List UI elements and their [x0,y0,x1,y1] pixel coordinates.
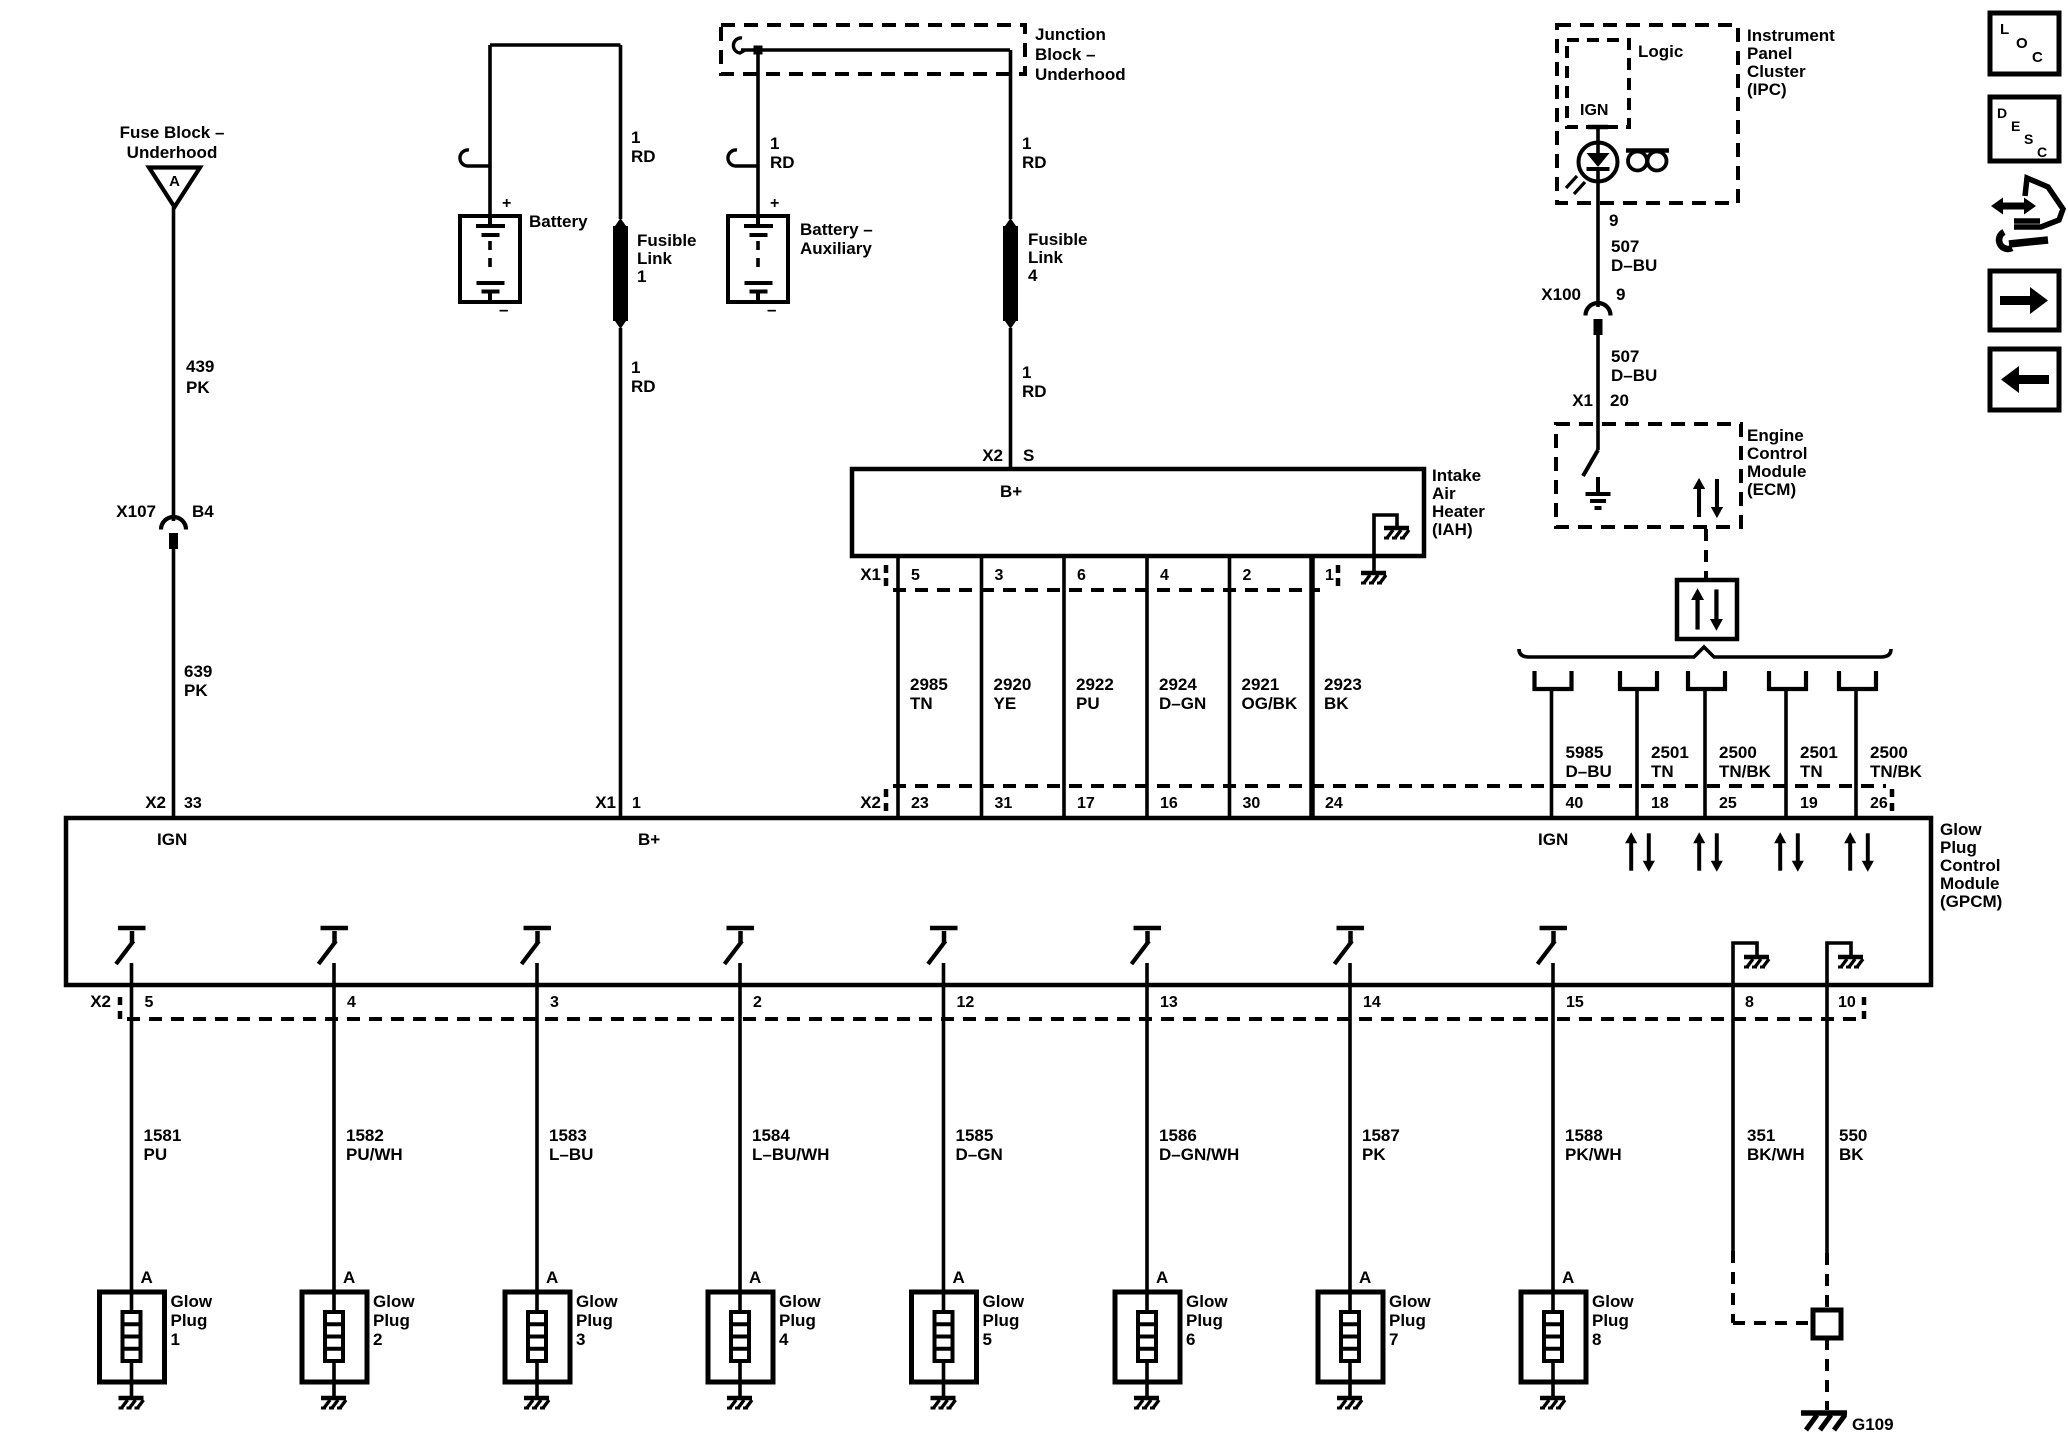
svg-text:7: 7 [1389,1330,1398,1349]
svg-text:(IAH): (IAH) [1432,520,1473,539]
svg-text:S: S [2024,131,2033,147]
svg-text:YE: YE [994,694,1017,713]
svg-text:5: 5 [983,1330,992,1349]
svg-text:Plug: Plug [1186,1311,1223,1330]
svg-text:D–GN/WH: D–GN/WH [1159,1145,1239,1164]
svg-text:20: 20 [1610,391,1629,410]
svg-text:L: L [2000,21,2009,38]
svg-text:12: 12 [957,994,975,1011]
svg-text:Glow: Glow [1389,1292,1431,1311]
svg-text:Underhood: Underhood [127,143,218,162]
svg-text:+: + [502,195,511,212]
svg-text:351: 351 [1747,1126,1775,1145]
svg-text:2500: 2500 [1870,743,1908,762]
svg-text:2920: 2920 [994,675,1032,694]
svg-text:X100: X100 [1541,285,1581,304]
svg-text:10: 10 [1838,994,1856,1011]
svg-text:3: 3 [550,994,559,1011]
svg-text:Plug: Plug [983,1311,1020,1330]
svg-text:PU/WH: PU/WH [346,1145,403,1164]
svg-text:1: 1 [171,1330,180,1349]
svg-text:1: 1 [1022,134,1031,153]
svg-text:14: 14 [1363,994,1381,1011]
svg-text:PK: PK [186,378,210,397]
svg-text:X1: X1 [860,565,881,584]
svg-text:D: D [1997,105,2007,121]
svg-text:(GPCM): (GPCM) [1940,892,2002,911]
svg-text:4: 4 [347,994,356,1011]
svg-text:1: 1 [631,128,640,147]
svg-text:TN: TN [1651,762,1674,781]
svg-text:15: 15 [1566,994,1584,1011]
svg-text:L–BU: L–BU [549,1145,593,1164]
svg-text:507: 507 [1611,347,1639,366]
svg-text:OG/BK: OG/BK [1242,694,1298,713]
svg-text:6: 6 [1077,567,1086,584]
svg-text:RD: RD [631,147,656,166]
svg-text:D–BU: D–BU [1611,366,1657,385]
svg-text:2501: 2501 [1800,743,1838,762]
svg-text:–: – [499,300,508,319]
svg-text:B+: B+ [638,830,660,849]
svg-text:A: A [169,173,180,190]
svg-text:X1: X1 [1572,391,1593,410]
svg-text:1587: 1587 [1362,1126,1400,1145]
svg-text:30: 30 [1243,795,1261,812]
svg-text:A: A [141,1268,153,1287]
svg-text:2923: 2923 [1324,675,1362,694]
svg-text:550: 550 [1839,1126,1867,1145]
svg-text:PU: PU [144,1145,168,1164]
svg-text:Panel: Panel [1747,44,1792,63]
svg-text:D–BU: D–BU [1566,762,1612,781]
svg-text:TN/BK: TN/BK [1719,762,1772,781]
svg-text:L–BU/WH: L–BU/WH [752,1145,829,1164]
svg-text:19: 19 [1800,795,1818,812]
svg-text:X107: X107 [116,502,156,521]
svg-text:X2: X2 [982,446,1003,465]
svg-text:Link: Link [637,249,672,268]
svg-text:18: 18 [1651,795,1669,812]
svg-text:Cluster: Cluster [1747,62,1806,81]
svg-text:Plug: Plug [1389,1311,1426,1330]
svg-text:BK/WH: BK/WH [1747,1145,1805,1164]
svg-text:Engine: Engine [1747,426,1804,445]
svg-text:16: 16 [1160,795,1178,812]
svg-text:1586: 1586 [1159,1126,1197,1145]
svg-text:IGN: IGN [157,830,187,849]
svg-text:31: 31 [995,795,1013,812]
svg-text:Plug: Plug [779,1311,816,1330]
svg-text:2501: 2501 [1651,743,1689,762]
svg-text:IGN: IGN [1580,102,1608,119]
svg-text:E: E [2011,118,2020,134]
svg-text:Module: Module [1940,874,2000,893]
svg-text:Plug: Plug [373,1311,410,1330]
svg-text:B+: B+ [1000,482,1022,501]
svg-text:O: O [2016,35,2028,52]
svg-text:S: S [1023,446,1034,465]
svg-text:2922: 2922 [1076,675,1114,694]
svg-text:1: 1 [1325,567,1334,584]
svg-text:Glow: Glow [983,1292,1025,1311]
svg-text:D–BU: D–BU [1611,256,1657,275]
svg-text:RD: RD [631,377,656,396]
svg-text:A: A [1562,1268,1574,1287]
svg-text:26: 26 [1870,795,1888,812]
svg-text:Heater: Heater [1432,502,1485,521]
svg-text:Logic: Logic [1638,42,1683,61]
svg-text:(IPC): (IPC) [1747,80,1787,99]
svg-text:D–GN: D–GN [1159,694,1206,713]
svg-text:–: – [767,300,776,319]
svg-text:Block –: Block – [1035,45,1095,64]
svg-text:X1: X1 [595,793,616,812]
svg-text:Glow: Glow [171,1292,213,1311]
svg-text:BK: BK [1839,1145,1864,1164]
svg-text:A: A [1156,1268,1168,1287]
svg-text:Battery –: Battery – [800,220,873,239]
svg-text:4: 4 [779,1330,789,1349]
svg-text:2: 2 [1243,567,1252,584]
svg-text:1584: 1584 [752,1126,790,1145]
svg-text:25: 25 [1719,795,1737,812]
svg-text:2921: 2921 [1242,675,1280,694]
svg-text:5: 5 [911,567,920,584]
svg-text:Control: Control [1747,444,1807,463]
svg-text:(ECM): (ECM) [1747,480,1796,499]
svg-text:4: 4 [1028,266,1038,285]
svg-text:Intake: Intake [1432,466,1481,485]
svg-text:9: 9 [1609,211,1618,230]
svg-text:PK: PK [1362,1145,1386,1164]
svg-text:9: 9 [1616,285,1625,304]
svg-text:Battery: Battery [529,212,588,231]
svg-text:1: 1 [632,795,641,812]
svg-text:A: A [546,1268,558,1287]
svg-text:1588: 1588 [1565,1126,1603,1145]
svg-text:439: 439 [186,357,214,376]
svg-text:1585: 1585 [956,1126,994,1145]
svg-text:TN/BK: TN/BK [1870,762,1923,781]
svg-text:23: 23 [911,795,929,812]
svg-text:1: 1 [770,134,779,153]
svg-text:Auxiliary: Auxiliary [800,239,872,258]
svg-text:2: 2 [753,994,762,1011]
svg-text:Glow: Glow [1940,820,1982,839]
svg-text:BK: BK [1324,694,1349,713]
svg-text:TN: TN [910,694,933,713]
svg-text:40: 40 [1566,795,1584,812]
svg-text:Link: Link [1028,248,1063,267]
svg-text:1: 1 [1022,363,1031,382]
svg-text:RD: RD [1022,382,1047,401]
svg-text:Glow: Glow [779,1292,821,1311]
svg-text:Plug: Plug [1940,838,1977,857]
svg-text:Air: Air [1432,484,1456,503]
svg-text:1: 1 [637,267,646,286]
svg-text:33: 33 [184,795,202,812]
svg-text:2985: 2985 [910,675,948,694]
svg-text:Fusible: Fusible [1028,230,1088,249]
svg-text:1583: 1583 [549,1126,587,1145]
svg-text:Junction: Junction [1035,25,1106,44]
svg-text:Fuse Block –: Fuse Block – [120,123,225,142]
svg-text:Glow: Glow [1592,1292,1634,1311]
svg-text:5: 5 [145,994,154,1011]
svg-text:PU: PU [1076,694,1100,713]
svg-text:RD: RD [1022,153,1047,172]
svg-text:PK: PK [184,681,208,700]
svg-text:5985: 5985 [1566,743,1604,762]
svg-text:507: 507 [1611,237,1639,256]
svg-text:Plug: Plug [576,1311,613,1330]
svg-text:1582: 1582 [346,1126,384,1145]
svg-text:X2: X2 [145,793,166,812]
svg-text:X2: X2 [90,992,111,1011]
svg-text:Plug: Plug [1592,1311,1629,1330]
svg-text:3: 3 [576,1330,585,1349]
svg-text:Glow: Glow [373,1292,415,1311]
svg-text:3: 3 [995,567,1004,584]
svg-text:2: 2 [373,1330,382,1349]
svg-text:4: 4 [1160,567,1169,584]
svg-text:Glow: Glow [576,1292,618,1311]
svg-text:B4: B4 [192,502,214,521]
svg-text:Module: Module [1747,462,1807,481]
svg-text:C: C [2032,49,2043,66]
svg-text:RD: RD [770,153,795,172]
svg-text:A: A [1359,1268,1371,1287]
svg-text:TN: TN [1800,762,1823,781]
svg-text:2924: 2924 [1159,675,1197,694]
svg-text:13: 13 [1160,994,1178,1011]
svg-text:17: 17 [1077,795,1095,812]
svg-text:2500: 2500 [1719,743,1757,762]
svg-text:X2: X2 [860,793,881,812]
svg-text:IGN: IGN [1538,830,1568,849]
svg-text:A: A [749,1268,761,1287]
svg-text:Underhood: Underhood [1035,65,1126,84]
svg-text:+: + [770,195,779,212]
svg-text:Control: Control [1940,856,2000,875]
svg-text:A: A [953,1268,965,1287]
svg-text:639: 639 [184,662,212,681]
svg-text:D–GN: D–GN [956,1145,1003,1164]
svg-text:Instrument: Instrument [1747,26,1835,45]
svg-text:Fusible: Fusible [637,231,697,250]
svg-text:Glow: Glow [1186,1292,1228,1311]
svg-text:8: 8 [1745,994,1754,1011]
svg-text:Plug: Plug [171,1311,208,1330]
svg-text:1581: 1581 [144,1126,182,1145]
svg-text:G109: G109 [1852,1415,1894,1434]
svg-text:PK/WH: PK/WH [1565,1145,1622,1164]
svg-text:24: 24 [1325,795,1343,812]
svg-text:8: 8 [1592,1330,1601,1349]
svg-text:C: C [2037,144,2047,160]
svg-text:A: A [343,1268,355,1287]
svg-text:6: 6 [1186,1330,1195,1349]
svg-text:1: 1 [631,358,640,377]
